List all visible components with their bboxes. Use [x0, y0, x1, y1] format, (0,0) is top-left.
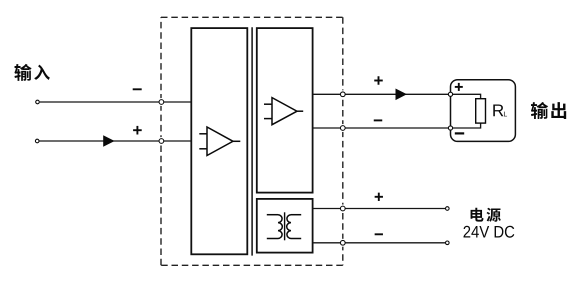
polarity mark + (output wire)	[374, 76, 383, 85]
wire: power + lead	[313, 208, 446, 210]
polarity mark + (load)	[455, 83, 463, 91]
power terminal - (open circle)	[446, 241, 450, 245]
label 输入 char 2	[34, 65, 50, 80]
label 24V DC	[463, 226, 514, 238]
op-amp A1 (input amplifier)	[199, 127, 240, 156]
polarity mark - (load)	[455, 132, 464, 134]
wire: load top	[451, 94, 481, 98]
resistor RL	[476, 99, 486, 123]
label 输出 char 2	[551, 102, 566, 119]
label 电源 char 1	[471, 208, 484, 222]
junction on boundary, power -	[340, 240, 345, 245]
polarity mark - (power wire)	[375, 233, 383, 235]
junction on boundary, output -	[340, 126, 345, 131]
gaps in dashed boundary at junctions	[157, 90, 346, 247]
transformer T1	[267, 212, 301, 240]
arrow on input + wire	[103, 135, 114, 147]
polarity mark + (power wire)	[375, 193, 383, 201]
load terminal + (circle on enclosure edge)	[448, 92, 452, 96]
junction on boundary, power +	[340, 206, 345, 211]
label 输入 char 1	[14, 64, 31, 81]
load terminal - (circle on enclosure edge)	[448, 126, 452, 130]
junction on boundary, input -	[159, 100, 164, 105]
power converter box U3	[257, 199, 313, 253]
label 输出 char 1	[531, 102, 548, 119]
input stage box U1	[191, 28, 247, 254]
wire: input + lead	[39, 140, 191, 142]
power terminal + (open circle)	[446, 207, 450, 211]
junction on boundary, output +	[340, 92, 345, 97]
wire: input - lead	[40, 101, 192, 103]
label 电源 char 2	[487, 208, 501, 222]
polarity mark - (output wire)	[374, 119, 383, 121]
junction on boundary, input +	[159, 139, 164, 144]
arrow on output + wire	[396, 89, 407, 101]
polarity mark - (input wire 1)	[133, 88, 142, 90]
wire: load bottom	[451, 123, 481, 128]
load enclosure (rounded box)	[451, 80, 516, 142]
wire: power - lead	[313, 242, 446, 244]
op-amp A2 (output amplifier)	[264, 98, 303, 125]
input terminal 1 (open circle)	[36, 100, 40, 104]
dashed boundary of isolation amplifier module	[161, 17, 343, 265]
input terminal 2 (open circle)	[35, 139, 39, 143]
wire: output - lead	[313, 127, 451, 129]
polarity mark + (input wire 2)	[133, 126, 142, 135]
output stage box U2	[257, 28, 313, 193]
wire: output + lead	[313, 93, 451, 95]
value label RL	[493, 105, 507, 117]
isolation barrier line	[251, 27, 253, 255]
